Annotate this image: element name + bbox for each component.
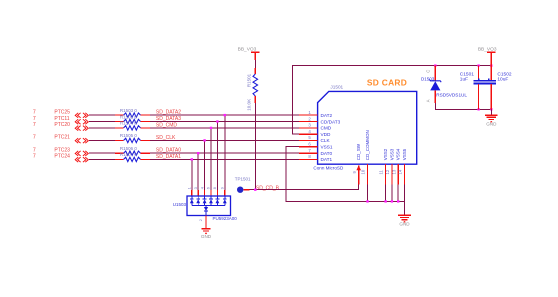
svg-text:5: 5: [308, 135, 311, 140]
zener diode D1503 RSD5VDS1UL: [421, 66, 467, 103]
svg-text:1: 1: [308, 110, 311, 115]
pin 3 CMD: [299, 123, 332, 131]
wire PTC11 to R1502: [89, 121, 115, 123]
svg-text:J1501: J1501: [330, 85, 343, 90]
wire ground bus to GND: [404, 201, 406, 215]
wire SD_DATA1 to connector pin: [150, 158, 299, 160]
wire D1503 anode to ground bus: [435, 103, 491, 109]
svg-text:7: 7: [33, 148, 36, 154]
wire SD_CLK to connector pin: [150, 139, 299, 141]
svg-text:VSS3: VSS3: [389, 148, 394, 160]
pin 12 VSS3: [385, 148, 394, 184]
wire VSS5 to ground bus: [404, 184, 406, 201]
off-page connector PTC25: [33, 109, 88, 117]
svg-text:11: 11: [379, 169, 384, 174]
svg-text:CD_COMMON: CD_COMMON: [365, 130, 370, 160]
resistor R1506 0 ohm: [115, 146, 150, 155]
wire pin to ground bus: [385, 184, 387, 201]
junction SD_CLK: [203, 139, 205, 141]
wire VSS1 to ground bus: [286, 147, 405, 202]
svg-text:PU5923A00: PU5923A00: [213, 216, 238, 221]
svg-text:CD_SW: CD_SW: [356, 143, 361, 160]
ground caps: [485, 115, 498, 126]
off-page connector PTC20: [33, 122, 88, 130]
wire SD_DATA3 down to ESD array: [216, 122, 218, 190]
off-page connector PTC11: [33, 116, 88, 124]
svg-text:1uF: 1uF: [460, 76, 468, 82]
resistor R1503 0 ohm: [115, 108, 150, 117]
pin 7 DAT0: [299, 148, 333, 156]
svg-text:U1503: U1503: [173, 202, 187, 207]
resistor R1507 0 ohm: [115, 152, 150, 161]
svg-text:CD/DAT3: CD/DAT3: [321, 119, 341, 124]
pin 14 VSS5: [398, 148, 407, 184]
junction ground bus: [391, 200, 393, 202]
svg-text:R1507 0: R1507 0: [120, 152, 138, 157]
wire pin to ground bus: [391, 184, 393, 201]
svg-text:9: 9: [221, 187, 225, 189]
wire VDD pin4 to rail: [292, 66, 491, 135]
svg-text:3: 3: [308, 123, 311, 128]
svg-text:10uF: 10uF: [497, 76, 508, 82]
svg-text:9: 9: [352, 171, 357, 174]
capacitor C1501 1uF: [460, 66, 485, 110]
svg-text:SD CARD: SD CARD: [367, 78, 407, 88]
resistor R1504 0 ohm: [115, 121, 150, 130]
off-page connector PTC24: [33, 154, 88, 162]
svg-text:R1502 0: R1502 0: [120, 114, 138, 119]
wire PTC21 to R1505: [89, 139, 115, 141]
junction C1502 bottom: [490, 108, 492, 110]
pin 1 DAT2: [299, 110, 333, 118]
pin 4 VDD: [299, 129, 331, 137]
svg-text:7: 7: [33, 135, 36, 141]
wire SD_DATA3 to connector pin: [150, 121, 299, 123]
svg-text:C: C: [426, 70, 431, 73]
svg-text:R1501: R1501: [246, 73, 251, 87]
svg-text:R1504 0: R1504 0: [120, 121, 138, 126]
wire SD_DATA2 to connector pin: [150, 114, 299, 116]
svg-text:7: 7: [308, 148, 311, 153]
svg-text:PTC21: PTC21: [54, 135, 70, 141]
svg-text:10.0K: 10.0K: [246, 99, 251, 111]
capacitor C1502 10uF: [485, 66, 512, 110]
svg-text:4: 4: [200, 187, 204, 189]
wire R1501 to SD_CD_B: [254, 103, 256, 190]
svg-text:7: 7: [33, 154, 36, 160]
wire pin to ground bus: [397, 184, 399, 201]
svg-text:PTC11: PTC11: [54, 116, 69, 122]
U1503 ground pin: [205, 216, 207, 229]
svg-text:4: 4: [308, 129, 311, 134]
svg-text:6: 6: [308, 142, 311, 147]
junction SD_DATA3: [216, 120, 218, 122]
svg-text:VSS2: VSS2: [383, 148, 388, 160]
SD card connector J1501: [313, 78, 416, 171]
wire SD_CMD to connector pin: [150, 127, 299, 129]
svg-text:1: 1: [188, 187, 192, 189]
svg-text:PTC24: PTC24: [54, 154, 70, 160]
svg-text:GND: GND: [201, 234, 212, 239]
svg-text:7: 7: [33, 116, 36, 122]
wire PTC25 to R1503: [89, 114, 115, 116]
resistor R1502 0 ohm: [115, 114, 150, 123]
svg-text:8: 8: [308, 154, 311, 159]
junction VDD-C1502: [490, 64, 492, 66]
svg-text:PTC23: PTC23: [54, 148, 70, 154]
svg-text:DAT1: DAT1: [321, 157, 333, 162]
junction ground bus: [384, 200, 386, 202]
wire TP1501 to junction: [249, 189, 255, 191]
svg-text:PTC20: PTC20: [54, 122, 70, 128]
pin 11 VSS2: [379, 148, 388, 184]
svg-text:SD_CD_B: SD_CD_B: [256, 185, 280, 191]
wire SD_CLK down to ESD array: [204, 140, 206, 189]
svg-text:GND: GND: [399, 222, 410, 227]
junction ground bus: [397, 200, 399, 202]
wire SD_DATA2 down to ESD array: [224, 115, 226, 190]
off-page connector PTC23: [33, 148, 88, 156]
wire SD_CMD down to ESD array: [210, 128, 212, 190]
wire pin to ground bus: [367, 184, 369, 201]
wire power to R1501: [254, 60, 256, 68]
pin 9 CD_SW: [352, 143, 361, 173]
junction SD_DATA1: [191, 158, 193, 160]
wire SD_DATA0 down to ESD array: [197, 153, 199, 190]
wire SD_CD_B to pin 9: [255, 184, 358, 189]
pin 10 CD_COMMON: [361, 130, 370, 184]
off-page connector PTC21: [33, 135, 88, 143]
wire caps to ground: [490, 109, 492, 115]
svg-text:VSS1: VSS1: [321, 145, 333, 150]
pin 6 VSS1: [299, 142, 333, 150]
svg-text:6: 6: [207, 187, 211, 189]
test point TP1501: [235, 177, 251, 193]
svg-text:13: 13: [391, 169, 396, 174]
junction VDD-D1503: [434, 64, 436, 66]
svg-text:R1506 0: R1506 0: [120, 146, 138, 151]
svg-text:VSS4: VSS4: [396, 148, 401, 160]
junction VDD-C1501: [477, 64, 479, 66]
pin 13 VSS4: [391, 148, 400, 184]
junction SD_CMD: [210, 127, 212, 129]
svg-text:A: A: [426, 99, 431, 102]
resistor R1501 10.0K: [246, 68, 257, 111]
power BB_VO3 (pull-up): [238, 46, 260, 60]
power BB_VO3 (VDD rail): [478, 47, 497, 66]
wire PTC20 to R1504: [89, 127, 115, 129]
ground U1503: [201, 229, 212, 239]
svg-text:R1503 0: R1503 0: [120, 108, 138, 113]
pin 5 CLK: [299, 135, 331, 143]
svg-text:PTC25: PTC25: [54, 109, 70, 115]
ESD array U1503 PU5923A00: [173, 187, 238, 221]
wire SD_DATA0 to connector pin: [150, 152, 299, 154]
svg-text:7: 7: [33, 109, 36, 115]
wire PTC24 to R1507: [89, 158, 115, 160]
svg-text:DAT0: DAT0: [321, 151, 333, 156]
svg-text:14: 14: [398, 169, 403, 174]
svg-text:CMD: CMD: [321, 126, 332, 131]
svg-text:12: 12: [385, 169, 390, 174]
svg-text:2: 2: [308, 116, 311, 121]
svg-text:CLK: CLK: [321, 138, 331, 143]
svg-text:VDD: VDD: [321, 132, 332, 137]
junction C1501 bottom: [477, 108, 479, 110]
svg-text:Conn MicroSD: Conn MicroSD: [313, 166, 344, 171]
svg-text:10: 10: [361, 169, 366, 174]
pin 2 CD/DAT3: [299, 116, 341, 124]
svg-text:GND: GND: [486, 122, 497, 127]
svg-text:8: 8: [213, 187, 217, 189]
pin 8 DAT1: [299, 154, 333, 162]
junction ground bus: [366, 200, 368, 202]
wire SD_DATA1 down to ESD array: [191, 159, 193, 189]
svg-text:3: 3: [194, 187, 198, 189]
svg-text:TP1501: TP1501: [235, 177, 251, 182]
svg-text:R1505 0: R1505 0: [120, 133, 138, 138]
svg-text:RSD5VDS1UL: RSD5VDS1UL: [436, 92, 467, 97]
svg-text:DAT2: DAT2: [321, 113, 333, 118]
svg-text:2: 2: [199, 219, 203, 221]
svg-text:VSS5: VSS5: [402, 148, 407, 160]
junction SD_CD_B node: [254, 189, 256, 191]
pin 9 stub with arrow: [356, 165, 361, 184]
resistor R1505 0 ohm: [115, 133, 150, 142]
junction SD_DATA0: [197, 152, 199, 154]
junction SD_DATA2: [224, 114, 226, 116]
svg-text:7: 7: [33, 122, 36, 128]
wire PTC23 to R1506: [89, 152, 115, 154]
ground connector: [398, 215, 411, 226]
